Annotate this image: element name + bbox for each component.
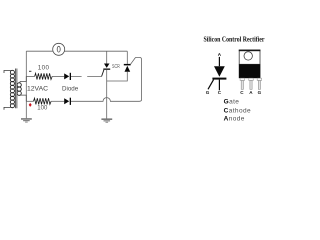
lamp DS1 (53, 43, 65, 55)
transformer T1 primary coil (10, 70, 14, 107)
svg-text:G: G (206, 90, 210, 95)
ground GND2 (SCR cathode) (101, 119, 112, 123)
diode D1 (64, 73, 71, 80)
leg 3 (257, 78, 261, 89)
wire top rail (26, 50, 127, 52)
svg-text:12VAC: 12VAC (27, 86, 48, 93)
wire left vertical bus (25, 51, 27, 118)
plus polarity mark (red) (29, 103, 32, 107)
transformer T1 secondary coil (17, 83, 21, 96)
wire row1 mid (52, 75, 64, 77)
svg-text:C: C (218, 90, 222, 95)
tab (239, 50, 260, 64)
tab top edge (239, 50, 261, 52)
svg-text:100: 100 (38, 64, 50, 71)
cathode lead (218, 80, 220, 91)
svg-text:SCR: SCR (112, 64, 120, 70)
TO-220 package U2 (239, 50, 262, 96)
ground GND1 (transformer bus) (21, 118, 32, 122)
cathode bar (212, 78, 226, 80)
resistor R2 100 (34, 98, 52, 104)
transformer T1 secondary bottom lead (19, 95, 26, 101)
svg-text:Silicon Control Rectifier: Silicon Control Rectifier (204, 37, 265, 44)
leg 1 (240, 78, 244, 89)
svg-text:Diode: Diode (62, 86, 79, 93)
leg 2 (249, 78, 253, 89)
SCR Q2 (right) (107, 51, 131, 81)
svg-text:G: G (258, 90, 262, 95)
svg-text:C: C (240, 90, 244, 95)
wire row1 right segment with switch gap (71, 75, 102, 77)
transformer T1 secondary top lead (19, 76, 26, 83)
wire row2 left segment (26, 100, 33, 102)
svg-text:Cathode: Cathode (224, 107, 251, 114)
svg-text:A: A (249, 90, 253, 95)
svg-text:100: 100 (37, 105, 48, 111)
transformer T1 core (16, 69, 17, 109)
wire row2 to SCR2 gate loop with hop over SCR1 cathode (71, 57, 142, 101)
svg-text:A: A (218, 52, 222, 57)
wire row2 mid (51, 100, 64, 102)
wire row1 left segment (26, 75, 34, 77)
mounting hole (244, 52, 252, 60)
minus polarity mark (29, 71, 31, 72)
SCR symbol (right panel) (206, 52, 227, 95)
transformer T1 primary bottom lead (4, 107, 12, 109)
body (239, 64, 261, 78)
gate lead (208, 80, 214, 90)
svg-text:Gate: Gate (224, 99, 240, 106)
SCR Q1 (left, labeled SCR) (102, 51, 111, 118)
SCR triangle (214, 66, 225, 77)
diode D2 (64, 98, 71, 105)
anode lead (218, 57, 220, 66)
resistor R1 100 (35, 73, 53, 79)
svg-text:Anode: Anode (224, 115, 245, 122)
transformer T1 primary top lead (4, 71, 12, 74)
